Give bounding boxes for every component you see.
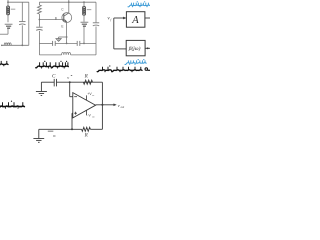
svg-text:B: B [55,17,57,21]
svg-text:out: out [121,106,125,109]
svg-text:A: A [131,15,139,26]
svg-text:C: C [52,74,56,80]
svg-text:β(jω): β(jω) [128,45,141,52]
svg-text:E: E [61,25,63,29]
svg-text:v: v [67,75,69,80]
